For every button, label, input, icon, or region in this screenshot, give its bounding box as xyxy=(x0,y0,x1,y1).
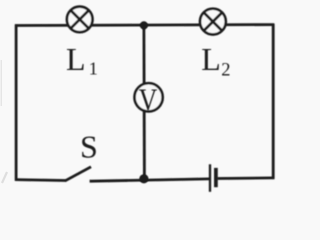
lamp L2 xyxy=(200,9,226,35)
switch S arm xyxy=(65,167,91,181)
wire bottom middle (switch contact to battery) xyxy=(90,179,210,181)
wire left xyxy=(15,24,18,180)
voltmeter V xyxy=(135,83,163,111)
lamp L1 xyxy=(67,7,93,33)
wire middle branch (vertical, behind voltmeter) xyxy=(142,25,145,179)
battery plate short xyxy=(214,168,218,187)
node top junction xyxy=(140,21,148,29)
battery plate long xyxy=(209,164,211,192)
wire top xyxy=(15,23,274,27)
svg-text:V: V xyxy=(139,83,158,118)
svg-text:L: L xyxy=(201,41,221,77)
node bottom junction xyxy=(139,174,148,183)
wire bottom left (to switch pivot) xyxy=(15,178,66,182)
svg-text:S: S xyxy=(80,128,98,164)
svg-text:2: 2 xyxy=(221,60,230,80)
wire right xyxy=(272,24,275,179)
wire bottom right (battery to corner) xyxy=(218,176,275,179)
svg-text:L: L xyxy=(66,41,86,77)
svg-text:1: 1 xyxy=(89,58,98,78)
